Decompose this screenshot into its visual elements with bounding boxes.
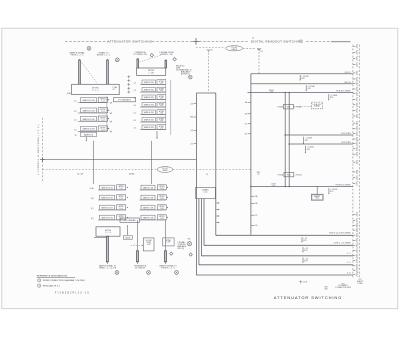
svg-text:1-2W: 1-2W bbox=[160, 90, 164, 92]
svg-text:OSC V: OSC V bbox=[345, 72, 352, 74]
component stack right of K4 bbox=[163, 238, 175, 246]
wire TR B RLY DRIVE bbox=[248, 92, 353, 94]
junction cross on left boundary bbox=[40, 157, 45, 162]
capacitor C2 bbox=[302, 247, 308, 253]
svg-text:1-2-5: 1-2-5 bbox=[101, 129, 105, 131]
capacitor C1050 bbox=[305, 146, 314, 154]
svg-text:F: F bbox=[357, 154, 358, 156]
svg-text:R 2: R 2 bbox=[113, 89, 116, 91]
svg-text:2 R1 2PRS: 2 R1 2PRS bbox=[341, 133, 351, 135]
svg-text:1-2W: 1-2W bbox=[147, 244, 151, 246]
svg-text:CH B 1 - 2.5 DRIVE: CH B 1 - 2.5 DRIVE bbox=[334, 243, 351, 245]
svg-text:(CONNECTOR) PINS: (CONNECTOR) PINS bbox=[335, 287, 350, 289]
svg-text:6: 6 bbox=[357, 89, 358, 91]
wire AT4 left leg bbox=[137, 220, 139, 251]
wire common return bbox=[197, 274, 353, 276]
wire pair RLY drive A bbox=[284, 93, 286, 187]
svg-text:J4 1 48: J4 1 48 bbox=[77, 173, 83, 175]
coax taps lower bbox=[251, 195, 258, 227]
node diamond D2 bbox=[173, 58, 177, 62]
contact row K3-1 bbox=[98, 185, 128, 190]
relay actuate dashed AT1 bbox=[82, 63, 97, 84]
cable boundary dashed W1 bbox=[42, 168, 157, 170]
capacitor C1046 bbox=[305, 85, 314, 91]
symbol ground near title bbox=[299, 281, 307, 284]
svg-text:1-2W: 1-2W bbox=[160, 113, 164, 115]
svg-text:245 A8: 245 A8 bbox=[129, 172, 135, 175]
bus taps upper bbox=[190, 103, 196, 145]
svg-text:14: 14 bbox=[357, 177, 359, 179]
svg-text:1-2W: 1-2W bbox=[160, 208, 164, 210]
relay box on bus K5 bbox=[196, 187, 216, 198]
svg-text:1-2-5: 1-2-5 bbox=[119, 198, 123, 200]
wire AT4 right leg bbox=[165, 220, 167, 251]
coax stub AT4 left bbox=[136, 251, 138, 262]
balloon P/O W2 cable bbox=[226, 46, 243, 51]
wire OSC W bbox=[251, 83, 353, 85]
bus taps lower with arrows bbox=[216, 202, 220, 223]
svg-text:(C): (C) bbox=[91, 208, 94, 210]
svg-text:INTERCONNECTION DIAGRAM 7-14: INTERCONNECTION DIAGRAM 7-14-2048 bbox=[43, 279, 86, 282]
ground shield symbol near bus bbox=[187, 242, 191, 246]
svg-text:(V): (V) bbox=[191, 103, 194, 105]
svg-text:SAMPLE 20 DB: SAMPLE 20 DB bbox=[82, 109, 95, 112]
wire K2 output down bbox=[156, 131, 158, 137]
svg-text:50 OHM 2W: 50 OHM 2W bbox=[135, 268, 145, 270]
contact row K4-3 bbox=[140, 205, 169, 210]
terminal symbol E5 bbox=[147, 271, 151, 275]
contact row K1-1 bbox=[74, 97, 112, 103]
svg-text:20: 20 bbox=[357, 256, 359, 258]
svg-text:P120A: P120A bbox=[277, 105, 283, 108]
cable boundary dashed after balloon W2 bbox=[243, 47, 256, 49]
wire drop to arrow small bbox=[127, 225, 129, 234]
node diamond D1 bbox=[150, 53, 154, 57]
capacitor C1048 bbox=[328, 94, 337, 101]
svg-text:470: 470 bbox=[303, 240, 306, 242]
svg-text:7: 7 bbox=[357, 99, 358, 101]
contact row K1-4 bbox=[74, 126, 112, 132]
wire CH B V RLY DRIVE bbox=[216, 234, 353, 236]
svg-text:REGULAR 2F 2 2: REGULAR 2F 2 2 bbox=[43, 285, 61, 288]
svg-text:100: 100 bbox=[272, 186, 275, 188]
relay actuate dashed AT2 bbox=[140, 54, 165, 62]
capacitor C1 bbox=[301, 237, 307, 243]
bus bend corners bbox=[197, 235, 218, 275]
svg-text:TR B RLY DRIVE: TR B RLY DRIVE bbox=[336, 91, 351, 93]
svg-text:SAMPLE 20 DB: SAMPLE 20 DB bbox=[82, 128, 95, 131]
svg-text:(Y): (Y) bbox=[191, 143, 194, 145]
svg-text:1-2W: 1-2W bbox=[160, 98, 164, 100]
svg-text:TR W RLY DRIVE: TR W RLY DRIVE bbox=[335, 184, 351, 186]
attenuator assembly AT4 bbox=[0, 0, 1, 1]
junction coax to TR W wire bbox=[250, 186, 252, 188]
svg-text:2-2: 2-2 bbox=[74, 111, 77, 113]
svg-text:1: 1 bbox=[39, 280, 40, 282]
svg-text:F I 2 B 2 B 2 P L 2 5 - 1: F I 2 B 2 B 2 P L 2 5 - 1 5 bbox=[55, 293, 89, 295]
capacitor C1045 bbox=[299, 75, 308, 81]
coax stub AT4 right bbox=[164, 251, 166, 262]
note 1 interconnection diagram bbox=[38, 279, 86, 282]
svg-text:1-2-5: 1-2-5 bbox=[101, 111, 105, 113]
svg-text:19: 19 bbox=[357, 245, 359, 247]
svg-text:TERM P 1 - 2 - 5: TERM P 1 - 2 - 5 bbox=[161, 268, 174, 270]
svg-text:SAMPLE 20 DB: SAMPLE 20 DB bbox=[82, 118, 95, 121]
svg-text:W: W bbox=[75, 135, 77, 137]
svg-text:470: 470 bbox=[307, 149, 310, 151]
balloon P/O W1 cable bbox=[157, 167, 173, 173]
svg-text:L: L bbox=[357, 220, 358, 222]
svg-text:MOD (2): MOD (2) bbox=[178, 248, 185, 250]
svg-text:2W1 B: 2W1 B bbox=[125, 237, 130, 239]
wire coax run 2W5 bbox=[250, 74, 252, 236]
svg-text:470: 470 bbox=[305, 140, 308, 142]
svg-text:W5: W5 bbox=[188, 239, 191, 241]
contact row K1-2 bbox=[74, 108, 112, 114]
contact row K3-4 bbox=[98, 215, 128, 220]
contact row K2-3 bbox=[134, 95, 166, 100]
svg-text:S: S bbox=[357, 260, 358, 262]
svg-text:21: 21 bbox=[357, 266, 359, 268]
svg-text:1 - 2: 1 - 2 bbox=[347, 253, 351, 255]
contact row K2-2 bbox=[134, 87, 166, 92]
terminal symbol E2 bbox=[115, 58, 119, 62]
node shield diamond bbox=[189, 253, 192, 256]
svg-text:5-2: 5-2 bbox=[134, 113, 137, 115]
svg-text:1-2-5: 1-2-5 bbox=[204, 192, 208, 194]
contact row K4-2 bbox=[140, 195, 169, 200]
svg-text:2: 2 bbox=[39, 285, 40, 287]
svg-text:1-5: 1-5 bbox=[74, 129, 77, 131]
svg-text:24: 24 bbox=[206, 174, 208, 176]
wire drop block1 to block3 bbox=[93, 141, 95, 184]
svg-text:1-2-5: 1-2-5 bbox=[119, 188, 123, 190]
wire into coax AT3 bbox=[94, 236, 106, 238]
wire OSC V bbox=[251, 73, 353, 75]
svg-text:2 CONTROL, B SWITCHING ( 2: 2 CONTROL, B SWITCHING ( 2 F 2 ) bbox=[38, 124, 40, 175]
svg-text:3: 3 bbox=[357, 58, 358, 60]
wire CH B 1-2-5 DRIVE bbox=[204, 244, 353, 246]
relay box K4 aux bbox=[143, 238, 154, 251]
svg-text:J5: J5 bbox=[258, 174, 260, 176]
wire control line to bus bbox=[42, 159, 196, 161]
svg-text:470: 470 bbox=[301, 78, 304, 80]
svg-text:(D): (D) bbox=[91, 218, 94, 220]
svg-text:ATTENUATOR SWITCHING: ATTENUATOR SWITCHING bbox=[108, 39, 153, 43]
svg-text:ATTEN 1 - 2 - 5: ATTEN 1 - 2 - 5 bbox=[97, 54, 110, 57]
svg-text:4-2: 4-2 bbox=[134, 105, 137, 107]
svg-text:1: 1 bbox=[357, 46, 358, 48]
reference box below (2W1) bbox=[123, 236, 132, 239]
svg-text:1 - 2 - 5: 1 - 2 - 5 bbox=[92, 90, 99, 92]
contact row K2-5 bbox=[134, 110, 166, 115]
svg-text:470: 470 bbox=[304, 250, 307, 252]
svg-text:1-2-5: 1-2-5 bbox=[101, 101, 105, 103]
svg-text:(X): (X) bbox=[191, 130, 194, 132]
svg-text:E: E bbox=[357, 143, 358, 145]
wire drop block2 to block4 bbox=[151, 141, 153, 184]
node diamond D3 bbox=[170, 252, 173, 255]
svg-text:SAMPLE 50: SAMPLE 50 bbox=[84, 133, 93, 136]
svg-text:FROM 1 - 2 - 5: FROM 1 - 2 - 5 bbox=[71, 55, 84, 57]
coax stub AT2 left bbox=[137, 59, 139, 68]
net boundary ATTENUATOR/DIGITAL READOUT bbox=[65, 40, 351, 42]
svg-text:1-2-5: 1-2-5 bbox=[101, 119, 105, 121]
cable boundary dashed W1 right bbox=[173, 168, 251, 170]
svg-text:CONN: CONN bbox=[358, 283, 364, 285]
coax stub AT3 down bbox=[106, 236, 108, 261]
svg-text:11: 11 bbox=[357, 149, 359, 151]
svg-text:P: P bbox=[357, 240, 358, 242]
node J2 dashed drop to bus bbox=[208, 50, 210, 93]
relay box K3 bbox=[96, 227, 120, 236]
coax stub AT1 left bbox=[79, 60, 81, 84]
svg-text:1 - 5: 1 - 5 bbox=[347, 262, 351, 264]
svg-text:(CA): (CA) bbox=[90, 187, 94, 190]
contact row K2-4 bbox=[134, 102, 166, 107]
resistor box A7A8R2 bbox=[316, 186, 318, 194]
svg-text:TO TERM 1-2W: TO TERM 1-2W bbox=[133, 54, 147, 56]
svg-text:P3: P3 bbox=[261, 51, 263, 53]
relay box K1 bbox=[72, 84, 120, 94]
contact row K4-1 bbox=[140, 185, 169, 190]
svg-text:2-1: 2-1 bbox=[74, 101, 77, 103]
contact row K4-4 bbox=[140, 215, 169, 220]
note 2 regulator bbox=[38, 284, 61, 287]
bus bundle verticals bbox=[197, 93, 216, 275]
svg-text:8: 8 bbox=[357, 105, 358, 107]
svg-text:6-2: 6-2 bbox=[134, 120, 137, 122]
svg-text:REFERENCE DESIGNATIONS: REFERENCE DESIGNATIONS bbox=[37, 275, 68, 278]
svg-text:1-2-5: 1-2-5 bbox=[119, 208, 123, 210]
svg-text:12: 12 bbox=[357, 162, 359, 164]
svg-text:12 W: 12 W bbox=[303, 281, 307, 283]
contact row K3-2 bbox=[98, 195, 128, 200]
cable boundary dashed to balloon W2 bbox=[196, 47, 225, 49]
wire A RLY PRS bbox=[285, 134, 353, 136]
terminal symbol E3 bbox=[189, 75, 193, 79]
svg-text:+ P121B: + P121B bbox=[295, 174, 303, 176]
relay box K2 bbox=[137, 68, 166, 75]
svg-text:1-2W: 1-2W bbox=[160, 120, 164, 122]
svg-text:B: B bbox=[357, 128, 358, 130]
contact row K3-3 bbox=[98, 205, 128, 210]
svg-text:3-2: 3-2 bbox=[134, 98, 137, 100]
svg-text:7-2: 7-2 bbox=[134, 128, 137, 130]
svg-text:SAMPLE 20 DB: SAMPLE 20 DB bbox=[82, 99, 95, 102]
svg-text:(B): (B) bbox=[91, 198, 94, 200]
attenuator assembly AT1 bbox=[0, 0, 1, 1]
svg-text:2W2: 2W2 bbox=[324, 287, 327, 289]
svg-text:2 R2 2PRS: 2 R2 2PRS bbox=[341, 142, 351, 144]
svg-text:CH B V 1-2-5 RLY DRIVE: CH B V 1-2-5 RLY DRIVE bbox=[329, 233, 351, 235]
svg-text:W12: W12 bbox=[287, 175, 291, 177]
contact row K2-6 bbox=[134, 117, 166, 122]
svg-text:OSC W: OSC W bbox=[344, 82, 351, 84]
svg-text:2-5: 2-5 bbox=[74, 119, 77, 121]
svg-text:18: 18 bbox=[357, 235, 359, 237]
node P3 dashed drop to OSC V wire bbox=[258, 49, 260, 74]
reference box to sheet 2 bbox=[114, 98, 136, 102]
svg-text:TERM 1 - 2 - 5 & 2TR: TERM 1 - 2 - 5 & 2TR bbox=[99, 268, 117, 270]
svg-text:4 - 8: 4 - 8 bbox=[347, 272, 351, 274]
junction block2 right rail bbox=[165, 79, 167, 130]
oscillator ref box (dashed) bbox=[311, 102, 322, 109]
svg-text:CABLE: CABLE bbox=[162, 169, 168, 172]
coax stub AT1 right bbox=[107, 60, 109, 84]
svg-text:2-2: 2-2 bbox=[134, 90, 137, 92]
svg-text:1-2W: 1-2W bbox=[160, 105, 164, 107]
connector J1 edge (dashed column) bbox=[353, 45, 360, 278]
svg-text:—: — bbox=[133, 243, 135, 245]
svg-text:1-2W: 1-2W bbox=[160, 188, 164, 190]
svg-text:470: 470 bbox=[330, 97, 333, 99]
contact row K1-5 bottom bbox=[75, 132, 97, 137]
svg-text:J2: J2 bbox=[211, 49, 213, 51]
svg-text:50 OHM: 50 OHM bbox=[146, 240, 153, 242]
terminal plus column bbox=[127, 75, 130, 93]
svg-text:470: 470 bbox=[307, 88, 310, 90]
wire 1-2 drive bbox=[202, 255, 353, 257]
note REFERENCE DESIGNATIONS bbox=[37, 275, 75, 278]
terminal symbol E1 bbox=[87, 46, 91, 50]
svg-text:W12: W12 bbox=[287, 107, 291, 109]
terminal symbol E4 bbox=[115, 271, 119, 275]
wire B RLY PRS bbox=[289, 143, 353, 145]
svg-text:4: 4 bbox=[357, 64, 358, 66]
wire K1 output down bbox=[85, 137, 87, 140]
svg-text:1-2W: 1-2W bbox=[166, 242, 170, 244]
contact row K2-7 bbox=[134, 125, 166, 130]
junction cross on boundary bbox=[193, 38, 200, 45]
svg-text:2: 2 bbox=[357, 52, 358, 54]
boundary dashed CONTROL B SWITCHING bbox=[41, 118, 43, 182]
attenuator assembly AT2 bbox=[0, 0, 1, 1]
svg-text:1 - 2 - 5: 1 - 2 - 5 bbox=[105, 232, 111, 234]
svg-text:10: 10 bbox=[357, 116, 359, 118]
contact row K2-1 bbox=[134, 80, 166, 85]
svg-text:P121A: P121A bbox=[278, 173, 284, 176]
dashed leader to oscillator box bbox=[293, 105, 311, 107]
svg-text:DIGITAL READOUT SWITCHING: DIGITAL READOUT SWITCHING bbox=[251, 40, 304, 44]
wire pair RLY drive B bbox=[288, 93, 290, 187]
svg-text:1-2W: 1-2W bbox=[160, 218, 164, 220]
svg-text:1 - 2W: 1 - 2W bbox=[148, 72, 154, 74]
contact row K1-3 bbox=[74, 116, 112, 122]
svg-text:(W): (W) bbox=[190, 117, 193, 119]
svg-text:ATTENUATOR SWITCHING: ATTENUATOR SWITCHING bbox=[274, 295, 342, 300]
svg-text:2W5: 2W5 bbox=[324, 288, 327, 290]
junction block1 right rail bbox=[106, 96, 108, 131]
svg-text:1-2: 1-2 bbox=[134, 83, 137, 85]
connector J1 pins bbox=[353, 45, 359, 277]
svg-text:750: 750 bbox=[270, 92, 273, 94]
svg-text:5: 5 bbox=[357, 79, 358, 81]
svg-text:470: 470 bbox=[304, 261, 307, 263]
svg-text:+ P120B: + P120B bbox=[294, 106, 302, 108]
svg-text:(CA): (CA) bbox=[67, 92, 71, 95]
svg-text:TERM: TERM bbox=[146, 242, 151, 244]
svg-text:R12: R12 bbox=[342, 283, 345, 285]
svg-text:24: 24 bbox=[252, 38, 254, 40]
svg-text:2500: 2500 bbox=[315, 198, 319, 200]
svg-text:9: 9 bbox=[357, 110, 358, 112]
svg-text:470: 470 bbox=[330, 191, 333, 193]
label (CA) column block3 bbox=[90, 187, 94, 220]
coax stub AT2 right bbox=[165, 60, 167, 68]
svg-text:1-2W: 1-2W bbox=[160, 198, 164, 200]
dashed arrow to K4 aux bbox=[131, 244, 142, 246]
capacitor C1049 bbox=[303, 137, 312, 144]
wire TR W RLY DRIVE bbox=[251, 185, 353, 187]
wire 1-5 drive bbox=[199, 264, 353, 266]
attenuator assembly AT3 bbox=[0, 0, 1, 1]
svg-text:ATTEN (2): ATTEN (2) bbox=[181, 73, 190, 76]
jumper box P120 upper bbox=[284, 104, 294, 109]
svg-text:T: T bbox=[357, 270, 358, 272]
reference box mid (SEE) bbox=[120, 218, 139, 222]
coax taps upper bbox=[245, 101, 251, 135]
jumper box P121 lower bbox=[284, 172, 294, 176]
svg-text:CABLE: CABLE bbox=[231, 48, 237, 51]
svg-text:7·8: 7·8 bbox=[300, 42, 303, 44]
terminal symbol E6 bbox=[175, 271, 179, 275]
svg-text:22: 22 bbox=[357, 274, 359, 276]
capacitor C3 bbox=[302, 258, 308, 264]
svg-text:1-2W: 1-2W bbox=[160, 83, 164, 85]
svg-text:1-2W: 1-2W bbox=[160, 128, 164, 130]
capacitor C1053 bbox=[328, 188, 337, 194]
